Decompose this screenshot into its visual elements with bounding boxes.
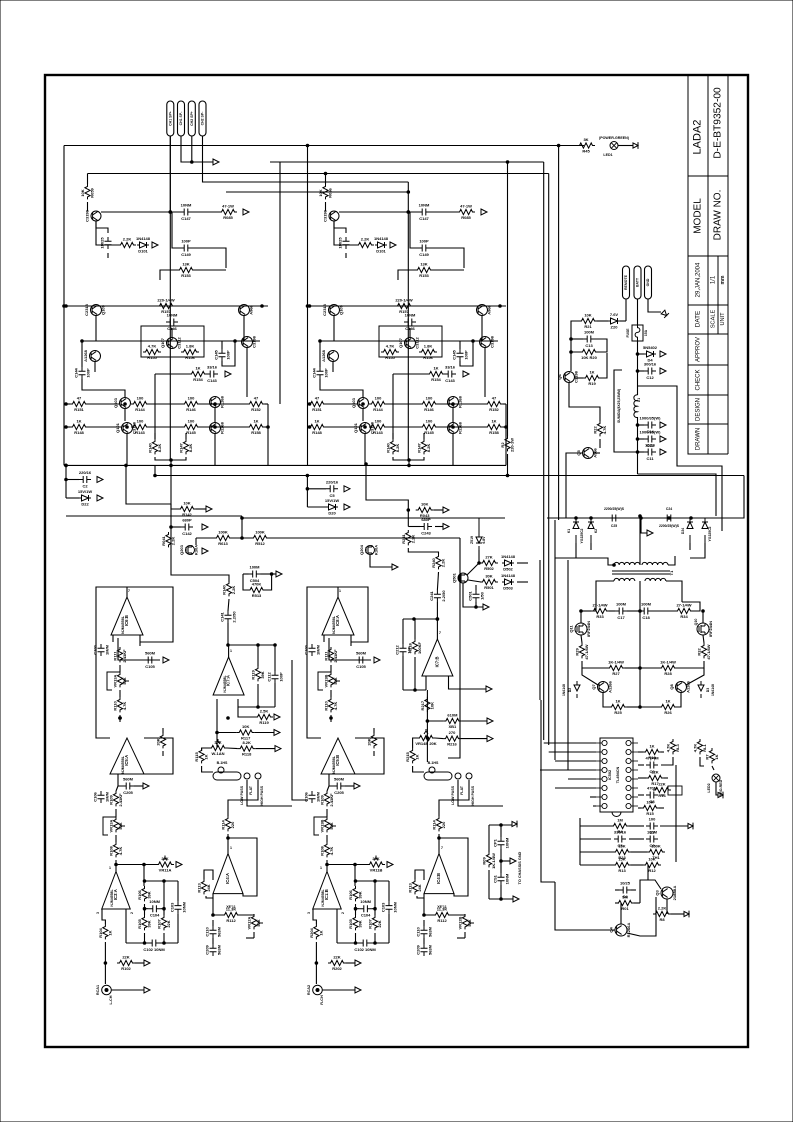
resistor RL1 4.7K xyxy=(697,739,702,754)
svg-text:R33: R33 xyxy=(596,614,604,619)
resistor R114 220 xyxy=(436,816,441,831)
feedback box wire xyxy=(96,587,173,710)
capacitor C8 470M xyxy=(646,792,658,799)
ground chassis arrow top xyxy=(512,821,517,828)
node arrow C105 xyxy=(163,657,169,663)
svg-text:300/16: 300/16 xyxy=(644,362,657,367)
svg-text:R153: R153 xyxy=(181,273,191,278)
wire xyxy=(620,320,626,322)
wire apex xyxy=(115,865,117,872)
wire Q110 down xyxy=(243,315,245,341)
svg-text:1K-1/4W: 1K-1/4W xyxy=(660,660,676,665)
capacitor C146 10NM xyxy=(166,319,178,326)
svg-text:R19: R19 xyxy=(588,381,596,386)
svg-text:R147: R147 xyxy=(417,442,422,452)
resistor R217 10K xyxy=(425,697,430,712)
diode D503 1N4148 xyxy=(502,579,514,585)
wire to R115 xyxy=(202,748,209,751)
svg-text:39K: 39K xyxy=(358,920,363,927)
svg-text:R145: R145 xyxy=(186,430,196,435)
svg-text:100K: 100K xyxy=(255,530,265,535)
svg-text:8.2K: 8.2K xyxy=(242,740,251,745)
svg-text:C3198: C3198 xyxy=(252,335,257,348)
wire xyxy=(155,457,186,460)
svg-text:10K: 10K xyxy=(242,724,249,729)
svg-text:XB1: XB1 xyxy=(449,724,458,729)
resistor R146 100 xyxy=(420,401,438,406)
svg-text:R25: R25 xyxy=(614,710,622,715)
wire vertical x676 xyxy=(675,765,677,862)
svg-text:C3112: C3112 xyxy=(415,336,420,348)
svg-text:15V/1W: 15V/1W xyxy=(78,489,92,494)
svg-text:560M: 560M xyxy=(123,777,134,782)
svg-text:FLAT: FLAT xyxy=(249,785,253,795)
svg-text:1: 1 xyxy=(230,649,232,653)
wire t-net feed xyxy=(143,863,146,866)
svg-text:C209: C209 xyxy=(416,944,421,954)
pin 16 IC502 xyxy=(626,740,631,745)
resistor R15 10K xyxy=(641,805,659,810)
wire x541 chassis xyxy=(541,700,555,882)
svg-text:K30A: K30A xyxy=(374,545,379,555)
svg-text:1/1: 1/1 xyxy=(711,275,717,284)
wire t-net bottom rail xyxy=(337,942,359,944)
svg-text:150K: 150K xyxy=(651,844,661,849)
wire xyxy=(266,574,272,590)
pin 11 IC502 xyxy=(626,785,631,790)
svg-text:VR13B: VR13B xyxy=(320,819,325,832)
wire mid rail y162 xyxy=(270,161,544,163)
svg-text:D-E-BT9352-00: D-E-BT9352-00 xyxy=(713,87,724,159)
svg-text:13K: 13K xyxy=(420,262,427,267)
resistor R216 270 xyxy=(443,736,461,741)
transistor Q121 C3198 xyxy=(91,211,101,221)
wire C149 down xyxy=(192,248,226,268)
svg-text:IC4:B: IC4:B xyxy=(436,873,441,884)
resistor R27 1K-1/4W xyxy=(607,665,625,670)
svg-text:Q10: Q10 xyxy=(694,619,698,626)
node arrow C15 xyxy=(660,436,666,442)
svg-text:R513: R513 xyxy=(252,593,262,598)
capacitor C147 10NM xyxy=(180,209,192,216)
svg-text:5M: 5M xyxy=(622,895,628,900)
svg-text:R104: R104 xyxy=(98,927,103,937)
wire xyxy=(134,785,143,787)
svg-text:GND: GND xyxy=(646,278,650,286)
svg-text:R143: R143 xyxy=(373,430,383,435)
svg-text:R118: R118 xyxy=(242,752,252,757)
wire xyxy=(580,611,582,623)
svg-text:C3112: C3112 xyxy=(177,336,182,348)
wire t-net top rail xyxy=(145,880,179,882)
wire xyxy=(88,403,120,405)
wire xyxy=(599,439,601,448)
wire xyxy=(582,668,598,685)
node arrow 2.5K xyxy=(274,714,280,720)
svg-text:R21: R21 xyxy=(584,324,592,329)
svg-text:D20: D20 xyxy=(328,511,336,516)
svg-text:RCA2: RCA2 xyxy=(307,985,311,995)
wire xyxy=(327,786,329,791)
svg-text:R1266A: R1266A xyxy=(626,923,631,938)
node arrow R219b xyxy=(487,718,493,724)
wire t-net feed xyxy=(354,863,357,866)
svg-text:R108: R108 xyxy=(320,845,325,855)
wire collector rail y306 xyxy=(64,305,268,307)
svg-text:R152: R152 xyxy=(251,407,261,412)
resistor R156 1.8K xyxy=(419,349,437,354)
svg-text:8.2K: 8.2K xyxy=(157,444,162,453)
svg-text:R145: R145 xyxy=(424,430,434,435)
op-amp IC5:B NJM4558L xyxy=(321,738,355,774)
svg-text:Q109: Q109 xyxy=(339,304,344,315)
svg-text:R114: R114 xyxy=(432,820,437,830)
svg-text:1.8K: 1.8K xyxy=(186,344,195,349)
resistor R13 15K xyxy=(613,862,631,867)
resistor R153 13K xyxy=(177,267,195,272)
connector J4 CH2 SP- xyxy=(199,101,206,136)
wire xyxy=(461,720,487,722)
svg-text:1N4148: 1N4148 xyxy=(711,684,715,696)
svg-text:C11: C11 xyxy=(646,456,654,461)
svg-text:NJM4558L: NJM4558L xyxy=(110,888,114,906)
svg-text:R108: R108 xyxy=(109,845,114,855)
wire xyxy=(475,602,477,607)
resistor R7 1K xyxy=(709,748,714,763)
svg-text:R501: R501 xyxy=(484,585,494,590)
svg-text:R26: R26 xyxy=(664,710,672,715)
svg-text:27-1/4W: 27-1/4W xyxy=(676,603,691,608)
capacitor C501 1/50 xyxy=(473,590,480,602)
svg-text:39K: 39K xyxy=(358,891,363,898)
wire xyxy=(326,835,328,842)
node arrow C14 xyxy=(660,422,666,428)
wire rail y518 xyxy=(242,517,505,519)
node arrow C2 xyxy=(344,486,350,492)
wire CH2 SP+ down xyxy=(191,136,193,162)
transformer T1 primary xyxy=(614,562,640,565)
svg-text:R204: R204 xyxy=(309,927,314,937)
wire R154 to R140 xyxy=(392,374,394,439)
transistor Q107 C3112 xyxy=(167,338,178,349)
svg-text:C18: C18 xyxy=(642,615,650,620)
svg-text:DRAWN: DRAWN xyxy=(696,428,702,450)
svg-text:15K: 15K xyxy=(618,844,625,849)
svg-text:LED2: LED2 xyxy=(707,783,711,792)
wire xyxy=(569,383,600,421)
svg-text:1M: 1M xyxy=(617,818,623,823)
svg-text:100: 100 xyxy=(426,396,433,401)
wires remote pills xyxy=(648,299,661,312)
svg-text:100: 100 xyxy=(137,419,144,424)
capacitor C109 563M xyxy=(421,944,428,956)
svg-text:47-1W: 47-1W xyxy=(460,204,472,209)
wire collector rail y306 xyxy=(308,305,507,307)
svg-text:APPROV: APPROV xyxy=(696,337,702,362)
svg-text:24K: 24K xyxy=(417,884,422,891)
resistor R110 4.7K xyxy=(328,697,333,712)
svg-text:C149: C149 xyxy=(181,252,191,257)
svg-text:Q107: Q107 xyxy=(398,337,403,348)
svg-text:330/16: 330/16 xyxy=(614,830,627,835)
svg-text:680P: 680P xyxy=(182,518,192,523)
capacitor C106 1M/M xyxy=(98,791,105,803)
svg-text:D101: D101 xyxy=(138,249,148,254)
wire right edge rail xyxy=(267,404,269,465)
svg-text:470K: 470K xyxy=(252,582,262,587)
resistor R107 22K xyxy=(372,915,377,930)
wire rail y475 xyxy=(155,475,744,477)
wire rail y619 xyxy=(403,618,437,620)
wire pin2 feedback xyxy=(126,909,130,943)
wire xyxy=(581,610,591,612)
resistor R33 27-1/4W xyxy=(591,608,609,613)
svg-text:CH1 SP+: CH1 SP+ xyxy=(169,111,173,126)
wire xyxy=(104,942,106,963)
svg-text:VR12A: VR12A xyxy=(247,916,252,929)
wire IC7B inv down xyxy=(426,690,428,762)
diode D22 15V/1W xyxy=(79,495,91,501)
resistor R25 1K xyxy=(609,704,627,709)
node arrow Q501 source xyxy=(483,604,489,610)
wire ch2 center vertical xyxy=(407,182,409,460)
wire xyxy=(119,715,121,722)
wire xyxy=(177,881,179,901)
svg-text:C102 10NM: C102 10NM xyxy=(354,947,376,952)
svg-text:R45: R45 xyxy=(582,149,590,154)
svg-text:1K: 1K xyxy=(714,754,719,759)
capacitor C144 100P xyxy=(79,367,86,379)
wire xyxy=(144,933,146,943)
capacitor C144 100P xyxy=(317,367,324,379)
svg-text:R085: R085 xyxy=(461,215,471,220)
svg-text:33/16: 33/16 xyxy=(207,365,218,370)
svg-text:CH2 SP+: CH2 SP+ xyxy=(190,111,194,126)
svg-text:R15: R15 xyxy=(646,811,654,816)
ground C7b xyxy=(688,823,693,830)
svg-text:39K: 39K xyxy=(260,671,265,678)
svg-text:C3198: C3198 xyxy=(574,370,579,383)
svg-text:A1266: A1266 xyxy=(608,680,613,693)
transistor Q103 C3198 xyxy=(120,398,131,409)
wire xyxy=(370,555,392,567)
svg-text:CS1: CS1 xyxy=(493,874,498,883)
op-amp IC7:B NJM4558L xyxy=(422,639,453,676)
svg-text:W-1AN: W-1AN xyxy=(211,751,224,756)
svg-text:VR13B: VR13B xyxy=(324,674,329,687)
capacitor C25 2200/25WS xyxy=(608,515,620,522)
capacitor C105b 560M xyxy=(333,783,345,790)
svg-text:A1268: A1268 xyxy=(321,349,326,362)
pin 3 IC502 xyxy=(602,758,607,763)
svg-text:2.43KF: 2.43KF xyxy=(329,793,334,807)
wire xyxy=(238,707,255,717)
resistor R148 1K xyxy=(70,424,88,429)
node arrow C243 xyxy=(443,524,449,530)
svg-text:C110: C110 xyxy=(416,927,421,937)
wire PSU drop x548 xyxy=(548,174,550,746)
wire xyxy=(160,270,177,280)
capacitor C148 1M/25 xyxy=(343,237,350,249)
wire xyxy=(162,751,164,756)
wire xyxy=(326,426,359,428)
wires below IC xyxy=(580,825,611,827)
transistor Q3 2188BA xyxy=(661,887,673,899)
wire IC7B output xyxy=(449,676,487,689)
connector GND xyxy=(645,266,652,299)
wire apex xyxy=(326,865,328,872)
svg-text:1K: 1K xyxy=(204,754,209,759)
svg-text:15A: 15A xyxy=(644,329,648,336)
svg-text:LOW PASS: LOW PASS xyxy=(451,785,455,805)
pin 15 IC502 xyxy=(626,749,631,754)
node arrow C142 xyxy=(202,524,208,530)
svg-text:10K: 10K xyxy=(584,313,591,318)
wire xyxy=(407,510,409,527)
wire apex xyxy=(337,587,339,597)
op-amp IC7:A NJM4558L xyxy=(213,657,244,695)
svg-text:R216: R216 xyxy=(447,742,457,747)
svg-text:4.7K: 4.7K xyxy=(386,344,395,349)
thermistor TH1 150K xyxy=(647,849,665,854)
wire to IC7 xyxy=(227,623,229,645)
transistor Q110 A966 xyxy=(239,305,250,316)
svg-text:C205: C205 xyxy=(334,790,344,795)
wire xyxy=(478,550,480,563)
svg-text:1K: 1K xyxy=(433,366,438,371)
wire xyxy=(413,738,417,748)
wire VR11 row xyxy=(116,864,157,866)
wire xyxy=(700,757,704,766)
svg-text:R151: R151 xyxy=(312,407,322,412)
svg-text:Q101: Q101 xyxy=(115,422,120,433)
wire xyxy=(517,562,528,564)
wire xyxy=(452,433,454,465)
node arrow C11 xyxy=(660,449,666,455)
svg-text:1K: 1K xyxy=(415,754,420,759)
capacitor C12 300/16 xyxy=(644,368,656,375)
resistor R219 610 xyxy=(443,718,461,723)
svg-text:C3198: C3198 xyxy=(490,335,495,348)
node arrow D101 xyxy=(152,242,158,248)
node arrow C143 xyxy=(225,371,231,377)
svg-text:30K: 30K xyxy=(485,574,492,579)
node arrow PSU mid xyxy=(647,530,653,536)
svg-text:R148: R148 xyxy=(74,430,84,435)
svg-text:220: 220 xyxy=(230,821,235,828)
capacitor C104 10NM xyxy=(360,905,372,912)
svg-text:RCA1: RCA1 xyxy=(96,985,100,995)
wire feedback vertical x280 xyxy=(279,162,281,404)
wire xyxy=(703,635,704,643)
potentiometer VR12 50K xyxy=(462,914,467,929)
potentiometer VR14B 20K xyxy=(417,735,435,740)
wire xyxy=(435,526,443,528)
resistor R155 4.7K xyxy=(143,349,161,354)
wires PSU rails xyxy=(565,476,567,519)
wire xyxy=(452,408,454,422)
wire output node xyxy=(170,460,172,465)
wire base rail y341 xyxy=(319,340,498,342)
wire xyxy=(104,963,106,984)
wire xyxy=(163,881,165,915)
capacitor C145 100P xyxy=(219,349,226,361)
wire LED to gnd xyxy=(618,145,633,147)
wire cross link y192 xyxy=(226,191,408,193)
svg-text:SCALE: SCALE xyxy=(711,310,717,329)
resistor R29 47-1/4W xyxy=(579,643,584,658)
transistor Q102 C3198 xyxy=(448,423,459,434)
svg-text:CH2 SP-: CH2 SP- xyxy=(201,111,205,126)
wire mid vertical x460 xyxy=(448,538,460,758)
wire xyxy=(398,270,415,280)
wire xyxy=(212,938,214,944)
transistor Q203 K30A xyxy=(186,546,195,555)
svg-text:R1268: R1268 xyxy=(458,395,463,408)
wire xyxy=(503,426,506,428)
resistor R45 3K xyxy=(577,143,595,148)
svg-text:3K: 3K xyxy=(583,137,588,142)
node arrow C12 xyxy=(660,368,666,374)
svg-text:2.43KF: 2.43KF xyxy=(122,649,127,663)
wire xyxy=(388,881,390,901)
resistor R157 220-1/4W xyxy=(395,303,413,308)
svg-text:mm: mm xyxy=(720,275,726,284)
svg-text:R111: R111 xyxy=(113,651,118,661)
capacitor C212 10P xyxy=(400,644,407,656)
node arrow R085 xyxy=(481,209,487,215)
wire xyxy=(228,599,229,611)
wire xyxy=(430,211,457,213)
wire xyxy=(433,269,464,271)
capacitor C110 563M xyxy=(421,926,428,938)
svg-text:563M: 563M xyxy=(217,926,222,937)
svg-text:Q6: Q6 xyxy=(557,374,562,380)
capacitor C148 1M/25 xyxy=(105,237,112,249)
wire bus left IC502 xyxy=(544,742,596,744)
svg-text:C100: C100 xyxy=(93,644,98,654)
diode D22 15V/1W xyxy=(326,504,338,510)
svg-text:2.2/50: 2.2/50 xyxy=(441,590,446,602)
wire ch1 out to mid xyxy=(170,465,172,504)
svg-text:7: 7 xyxy=(439,631,441,635)
resistor R23 15K xyxy=(613,849,631,854)
feedback wire IC4 xyxy=(227,834,229,854)
wire xyxy=(330,665,332,672)
diode D2 1N4148 xyxy=(574,681,580,698)
wire xyxy=(439,838,468,896)
resistor R143 100 xyxy=(369,424,387,429)
node arrow C105b xyxy=(143,783,149,789)
resistor R085 47-1W xyxy=(219,209,237,214)
svg-text:C17: C17 xyxy=(617,615,625,620)
resistor R113 24K xyxy=(412,879,417,894)
wire xyxy=(461,738,487,740)
resistor R156 1.8K xyxy=(181,349,199,354)
resistor R146 100 xyxy=(182,401,200,406)
svg-text:100KF: 100KF xyxy=(417,641,422,654)
svg-text:R112: R112 xyxy=(226,918,236,923)
potentiometer VR14A 20K xyxy=(209,745,227,750)
node arrow R102 xyxy=(355,960,361,966)
svg-text:2.2K: 2.2K xyxy=(361,237,370,242)
wire CH1 SP- to arrow xyxy=(181,136,213,162)
pin 5 IC502 xyxy=(602,776,607,781)
svg-text:C145: C145 xyxy=(214,349,219,359)
svg-text:R140: R140 xyxy=(222,584,227,594)
svg-text:K1: K1 xyxy=(567,529,571,533)
wire xyxy=(712,766,714,770)
